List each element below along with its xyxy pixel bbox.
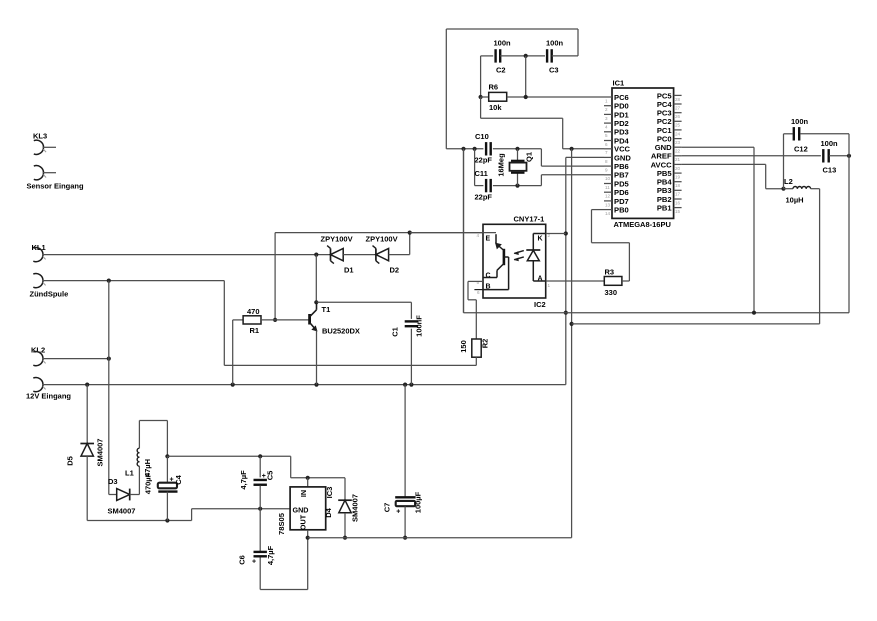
svg-text:16: 16 — [675, 200, 681, 205]
svg-text:AVCC: AVCC — [651, 160, 672, 169]
IC3 78S05 box — [277, 487, 334, 535]
wire GND right — [682, 147, 754, 313]
diode D4 SM4007 — [324, 494, 360, 522]
svg-text:C1: C1 — [391, 327, 400, 337]
diode D1 ZPY100V — [321, 235, 354, 275]
connector 12V Eingang — [33, 378, 45, 392]
wire collector drop — [314, 255, 318, 305]
IC2 pin K — [538, 233, 551, 243]
wire R6 left junction — [479, 95, 489, 99]
wire C10-C11 left — [474, 149, 476, 186]
IC U1 ATMEGA8 box — [612, 79, 674, 230]
IC2 pin B — [474, 283, 490, 295]
wire AREF — [682, 155, 821, 157]
svg-text:100µF: 100µF — [414, 491, 423, 513]
wire KL2 vertical — [108, 281, 110, 495]
label Sensor Eingang — [27, 182, 85, 191]
IC2 led — [526, 234, 545, 282]
svg-text:1: 1 — [605, 98, 608, 103]
IC2 pin E — [477, 233, 491, 243]
svg-text:24: 24 — [675, 131, 681, 136]
svg-text:13: 13 — [605, 202, 611, 207]
wire collector line — [316, 301, 411, 303]
svg-text:CNY17-1: CNY17-1 — [514, 215, 545, 224]
IC2 phototransistor — [483, 234, 509, 289]
svg-text:22: 22 — [675, 149, 681, 154]
svg-text:ZündSpule: ZündSpule — [30, 290, 69, 299]
svg-text:22pF: 22pF — [475, 193, 493, 202]
svg-text:C5: C5 — [266, 471, 275, 481]
label 12V Eingang — [26, 392, 71, 401]
capacitor C7 — [383, 491, 423, 539]
svg-text:100n: 100n — [494, 39, 512, 48]
svg-text:GND: GND — [293, 506, 309, 515]
svg-text:SM4007: SM4007 — [108, 507, 136, 516]
resistor R6 — [489, 83, 507, 113]
wire R3 to PB0 — [592, 210, 630, 281]
svg-text:16Meg: 16Meg — [497, 153, 506, 177]
svg-text:PB0: PB0 — [614, 206, 629, 215]
connector Sensor Eingang — [34, 166, 56, 180]
svg-text:R2: R2 — [481, 339, 490, 349]
svg-text:IC1: IC1 — [613, 79, 625, 88]
optocoupler IC2 box — [483, 224, 546, 309]
svg-text:6: 6 — [605, 142, 608, 147]
diode D2 ZPY100V — [366, 235, 400, 275]
svg-text:R6: R6 — [489, 83, 499, 92]
svg-text:21: 21 — [675, 157, 681, 162]
wire OUT down — [306, 530, 310, 590]
wire gnd bus y313 — [464, 149, 850, 315]
capacitor C13 — [821, 139, 839, 175]
wire VCC-GND rail — [446, 147, 483, 151]
wire ZuendSpule line — [43, 279, 224, 283]
svg-text:5: 5 — [605, 133, 608, 138]
wire C1 bottom — [410, 329, 412, 385]
svg-text:D4: D4 — [324, 507, 333, 517]
wire C3 right lead — [552, 55, 578, 57]
wire D3 right — [130, 466, 140, 494]
wire avcc bus y324 — [572, 323, 820, 325]
wire top rail — [446, 29, 578, 149]
svg-text:PD3: PD3 — [614, 128, 629, 137]
capacitor C6 — [238, 509, 276, 566]
svg-text:R1: R1 — [250, 326, 260, 335]
resistor R2 — [459, 339, 490, 357]
capacitor C1 — [391, 315, 424, 337]
svg-text:14: 14 — [605, 211, 611, 216]
svg-text:26: 26 — [675, 114, 681, 119]
svg-text:11: 11 — [605, 185, 610, 190]
wire C11 lead — [475, 185, 484, 187]
svg-text:100n: 100n — [791, 117, 809, 126]
svg-text:IN: IN — [299, 490, 308, 497]
svg-text:C2: C2 — [496, 66, 506, 75]
svg-text:22pF: 22pF — [475, 156, 493, 165]
svg-text:T1: T1 — [322, 305, 331, 314]
wire L1 top loop — [139, 421, 169, 459]
svg-text:3: 3 — [605, 116, 608, 121]
wire D4 down — [343, 513, 347, 540]
capacitor C3 — [546, 39, 564, 75]
wire D2 up to E line — [389, 233, 410, 255]
wire K pin — [546, 233, 566, 235]
svg-text:150: 150 — [459, 340, 468, 353]
resistor R3 — [604, 268, 622, 298]
inductor L1 — [125, 448, 152, 477]
svg-text:10k: 10k — [489, 103, 502, 112]
svg-text:GND: GND — [614, 153, 631, 162]
svg-text:PC4: PC4 — [657, 100, 673, 109]
svg-text:28: 28 — [675, 97, 681, 102]
wire AVCC — [682, 164, 786, 190]
wire D3 left — [109, 494, 117, 496]
svg-text:12: 12 — [605, 194, 611, 199]
svg-text:PD6: PD6 — [614, 188, 629, 197]
diode D3 SM4007 — [108, 477, 136, 516]
svg-text:470µF: 470µF — [143, 472, 152, 494]
svg-text:ATMEGA8-16PU: ATMEGA8-16PU — [614, 220, 671, 229]
wire base drop — [273, 233, 277, 322]
wire C12 right — [800, 134, 849, 156]
IC2 pin A — [538, 276, 551, 289]
svg-text:D5: D5 — [66, 456, 75, 466]
crystal Q1 — [497, 149, 534, 186]
svg-text:C12: C12 — [794, 145, 808, 154]
svg-text:2: 2 — [605, 107, 608, 112]
svg-text:4: 4 — [605, 125, 608, 130]
transistor T1 BU2520DX — [310, 302, 360, 335]
wire R2 bottom — [475, 357, 477, 365]
svg-text:PD0: PD0 — [614, 102, 629, 111]
svg-text:ZPY100V: ZPY100V — [366, 235, 398, 244]
wire C10 to crystal — [493, 147, 542, 151]
wire KL1 line — [43, 253, 331, 257]
svg-text:8: 8 — [605, 159, 608, 164]
svg-text:C4: C4 — [174, 474, 183, 484]
svg-text:PD5: PD5 — [614, 179, 630, 188]
svg-text:9: 9 — [605, 168, 608, 173]
wire C2-C3 mid — [500, 54, 545, 97]
capacitor C12 — [791, 117, 809, 154]
IC2 CNY17-1 label — [514, 215, 545, 224]
wire C13 right — [829, 154, 851, 158]
svg-text:27: 27 — [675, 105, 681, 110]
svg-text:20: 20 — [675, 166, 681, 171]
wire crystal right top — [541, 149, 604, 166]
wire D5 top — [86, 385, 88, 444]
svg-text:OUT: OUT — [299, 514, 308, 530]
svg-text:15: 15 — [675, 209, 681, 214]
svg-text:PB1: PB1 — [657, 204, 673, 213]
svg-text:ZPY100V: ZPY100V — [321, 235, 353, 244]
wire C7 top — [404, 385, 406, 497]
wire 5V down — [570, 149, 574, 538]
svg-text:+: + — [170, 477, 174, 484]
wire C6 loop — [260, 557, 308, 590]
svg-text:KL3: KL3 — [33, 132, 47, 141]
wire 5V bus — [308, 537, 572, 539]
wire IC1 GND left — [564, 157, 604, 384]
wire D5 bottom — [87, 456, 191, 523]
connector KL3 — [34, 140, 56, 154]
svg-text:PD1: PD1 — [614, 110, 630, 119]
capacitor C2 — [494, 39, 512, 75]
svg-text:SM4007: SM4007 — [95, 439, 104, 467]
svg-text:18: 18 — [675, 183, 681, 188]
svg-text:PC6: PC6 — [614, 93, 629, 102]
capacitor C11 — [475, 169, 493, 202]
svg-text:C13: C13 — [823, 166, 837, 175]
connector ZuendSpule — [33, 274, 45, 288]
wire R6 zigzag to VCC — [481, 97, 563, 149]
wire raw rail — [167, 454, 290, 458]
IC2 pin C — [477, 273, 491, 286]
svg-text:12V Eingang: 12V Eingang — [26, 392, 71, 401]
svg-text:L2: L2 — [784, 177, 793, 186]
wire C13 to gnd bus — [848, 156, 850, 313]
svg-text:C6: C6 — [238, 555, 247, 565]
svg-text:PD7: PD7 — [614, 197, 629, 206]
connector KL1 label — [32, 243, 46, 252]
wire C11 to crystal — [493, 184, 542, 188]
svg-text:100nF: 100nF — [415, 315, 424, 337]
diode D5 SM4007 — [66, 439, 105, 467]
svg-text:7: 7 — [605, 150, 608, 155]
wire crystal right bottom — [541, 175, 604, 186]
wire gnd step — [192, 507, 291, 521]
svg-text:IC3: IC3 — [325, 487, 334, 499]
svg-text:4,7µF: 4,7µF — [266, 545, 275, 565]
wire C12 left — [784, 134, 793, 189]
svg-text:BU2520DX: BU2520DX — [322, 327, 360, 336]
svg-text:78S05: 78S05 — [277, 512, 286, 535]
svg-text:470: 470 — [247, 307, 260, 316]
wire GND branch down — [463, 149, 465, 313]
wire D1-D2 — [343, 254, 376, 256]
svg-text:4: 4 — [477, 233, 480, 238]
wire A to R3 — [546, 280, 605, 282]
wire KL2 line — [43, 357, 111, 361]
svg-text:Sensor Eingang: Sensor Eingang — [27, 182, 85, 191]
connector KL1 — [33, 248, 45, 262]
svg-text:D2: D2 — [390, 266, 400, 275]
svg-text:Q1: Q1 — [525, 152, 534, 162]
resistor R1 — [243, 307, 261, 335]
capacitor C4 — [143, 456, 183, 520]
svg-text:KL2: KL2 — [31, 346, 45, 355]
svg-text:C10: C10 — [475, 132, 489, 141]
connector KL3 label — [33, 132, 47, 141]
wire R6 to PC6 — [507, 95, 604, 99]
capacitor C5 — [239, 456, 275, 508]
svg-text:C7: C7 — [383, 503, 392, 513]
svg-text:L1: L1 — [125, 469, 134, 478]
wire emitter down — [316, 331, 318, 385]
wire E pin — [410, 232, 496, 234]
wire 12V line — [43, 383, 566, 387]
svg-text:R3: R3 — [605, 268, 615, 277]
svg-text:4,7µF: 4,7µF — [239, 470, 248, 490]
svg-text:10µH: 10µH — [786, 195, 804, 204]
wire L2 to AREF-C bus — [811, 189, 820, 324]
wire C2 left lead — [481, 56, 494, 97]
svg-text:E: E — [486, 236, 491, 243]
svg-text:SM4007: SM4007 — [351, 494, 360, 522]
wire ZuendSpule down — [223, 281, 225, 366]
IC2 light arrows — [514, 251, 524, 262]
svg-text:1: 1 — [548, 283, 551, 288]
IC U1 left pins — [604, 93, 631, 216]
wire C pin step — [468, 281, 483, 339]
svg-text:17: 17 — [675, 192, 681, 197]
capacitor C10 — [475, 132, 493, 165]
svg-text:PC1: PC1 — [657, 126, 673, 135]
svg-text:19: 19 — [675, 175, 681, 180]
svg-text:IC2: IC2 — [534, 300, 546, 309]
svg-text:PB6: PB6 — [614, 162, 629, 171]
inductor L2 — [784, 177, 811, 204]
svg-text:PB7: PB7 — [614, 171, 629, 180]
svg-text:D1: D1 — [344, 266, 354, 275]
wire VCC pin line — [563, 147, 604, 151]
svg-text:100n: 100n — [821, 139, 839, 148]
svg-text:PB3: PB3 — [657, 186, 672, 195]
svg-text:330: 330 — [605, 288, 618, 297]
wire R1 left — [233, 320, 243, 385]
svg-text:100n: 100n — [546, 39, 564, 48]
connector KL2 label — [31, 346, 45, 355]
svg-text:C11: C11 — [475, 169, 488, 178]
svg-text:6: 6 — [477, 290, 480, 295]
IC U1 right pins — [651, 91, 682, 214]
wire R1 to base — [261, 319, 309, 321]
svg-text:C3: C3 — [549, 66, 559, 75]
wire emitter line y365 — [224, 364, 476, 366]
svg-text:+: + — [252, 559, 256, 566]
svg-text:10: 10 — [605, 176, 611, 181]
wire C1 top — [410, 302, 412, 319]
svg-text:5: 5 — [477, 280, 480, 285]
svg-text:K: K — [538, 236, 543, 243]
wire E line — [275, 231, 483, 235]
connector KL2 — [33, 352, 45, 366]
svg-text:D3: D3 — [108, 477, 118, 486]
wire raw step to IN — [291, 456, 345, 500]
svg-text:25: 25 — [675, 123, 681, 128]
svg-text:+: + — [396, 509, 400, 516]
label ZuendSpule — [30, 290, 69, 299]
svg-text:23: 23 — [675, 140, 681, 145]
svg-text:C: C — [486, 273, 491, 280]
svg-text:PD2: PD2 — [614, 119, 629, 128]
